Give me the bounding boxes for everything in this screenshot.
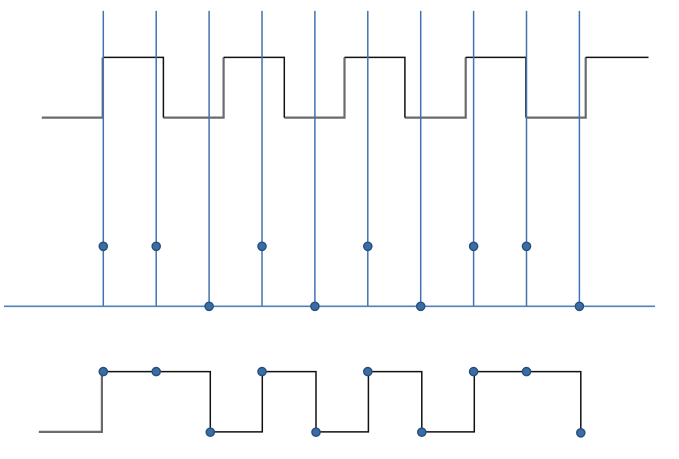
sample dot t1 high (mid) <box>152 242 160 250</box>
sampling line t3 <box>261 11 263 306</box>
sample dot t0 high (mid) <box>99 242 107 250</box>
sample dot t6 low (axis) <box>417 302 425 310</box>
sampling line t7 <box>473 11 475 306</box>
reconstructed dot t1 high <box>152 368 160 376</box>
input signal low/rising segments (gray) <box>42 57 586 117</box>
sample dot t9 low (axis) <box>575 302 583 310</box>
reconstructed dot t8 high <box>522 368 530 376</box>
input signal high/falling segments (black) <box>103 57 649 117</box>
sampling line t4 <box>314 11 316 306</box>
reconstructed dot t9 low <box>577 429 585 437</box>
sampling line t0 <box>102 11 104 306</box>
sampling line t9 <box>578 11 580 306</box>
reconstructed dot t5 high <box>364 368 372 376</box>
sample dot t5 high (mid) <box>364 242 372 250</box>
reconstructed dot t4 low <box>312 428 320 436</box>
reconstructed dot t3 high <box>258 368 266 376</box>
sampling line t8 <box>526 11 528 306</box>
sample dot t2 low (axis) <box>205 302 213 310</box>
reconstructed dot t2 low <box>206 428 214 436</box>
sampling line t6 <box>420 11 422 306</box>
sampling line t2 <box>208 11 210 306</box>
sample dot t3 high (mid) <box>258 242 266 250</box>
sample dot t4 low (axis) <box>311 302 319 310</box>
time axis <box>4 305 655 307</box>
reconstructed dot t6 low <box>418 428 426 436</box>
sampling line t5 <box>367 11 369 306</box>
sampling line t1 <box>155 11 157 306</box>
sample dot t7 high (mid) <box>470 242 478 250</box>
sample dot t8 high (mid) <box>522 242 530 250</box>
reconstructed dot t0 high <box>99 368 107 376</box>
reconstructed dot t7 high <box>470 368 478 376</box>
reconstructed signal start (gray) <box>39 372 102 432</box>
reconstructed signal (black) <box>102 372 581 433</box>
